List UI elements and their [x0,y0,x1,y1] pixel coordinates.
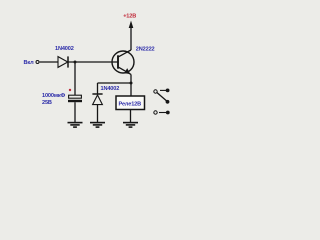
wire terminal to D1 anode [40,61,58,63]
relay contact 1 fixed contact dot [166,89,170,93]
svg-text:Вкл: Вкл [24,60,35,66]
diode D1 cathode bar [67,56,69,67]
terminal circle Вкл [36,61,39,64]
power arrow up [130,26,132,50]
diode D2 cathode bar [92,93,102,95]
svg-text:1N4002: 1N4002 [101,86,120,92]
transistor Q1 collector diagonal [119,50,132,57]
junction dot emitter/diode [130,82,133,85]
wire D2 to ground [97,105,99,122]
transistor Q1 emitter diagonal [119,67,132,74]
relay contact 2 arm [159,112,167,114]
relay contact 1 arm end dot [166,100,170,104]
relay contact 2 terminal [154,111,157,114]
junction node at C1 top [74,61,77,64]
transistor Q1 base bar [117,55,119,68]
relay contact 1 moving arm [157,93,167,102]
relay contact 2 fixed dot [166,111,170,115]
wire junction left to flyback diode [98,82,132,84]
svg-text:+12В: +12В [123,13,136,19]
svg-text:Реле12В: Реле12В [119,101,142,107]
relay K1 box [116,96,145,110]
relay contact 1 fixed contact lead [160,89,167,91]
transistor Q1 emitter arrowhead [124,68,130,74]
svg-text:1N4002: 1N4002 [55,46,74,52]
svg-text:2N2222: 2N2222 [136,46,155,52]
ground under relay [123,123,138,128]
wire to D2 cathode [97,83,99,94]
svg-text:1000мкФ: 1000мкФ [42,93,65,99]
ground under D2 [90,123,105,128]
relay contact 1 common terminal [154,90,157,93]
wire emitter down to relay, junction [130,74,132,96]
wire D1 to Q1 base [68,61,118,63]
capacitor C1 top plate (hollow) [69,95,82,98]
wire C1 to ground [74,102,76,122]
svg-text:25В: 25В [42,100,52,106]
wire junction down to C1 [74,62,76,95]
capacitor C1 plus mark [69,89,71,91]
capacitor C1 bottom plate (solid) [68,100,82,102]
ground under C1 [68,123,83,128]
diode D2 triangle [93,95,103,105]
diode D1 triangle [58,57,68,68]
transistor Q1 circle [112,51,134,73]
wire relay to ground [130,110,132,123]
